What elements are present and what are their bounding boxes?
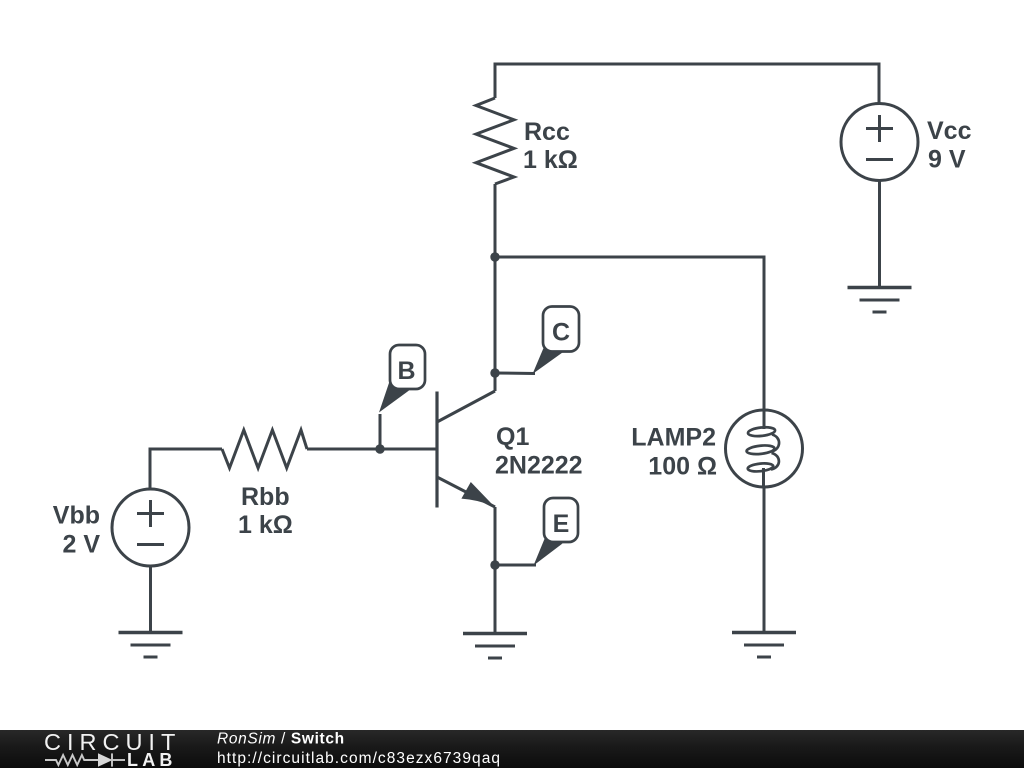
ground (Vcc): [848, 288, 912, 313]
CircuitLab logo wordmark: [44, 729, 181, 768]
wire Vcc to ground: [878, 181, 881, 288]
letter C: [552, 319, 570, 347]
label flag C: [533, 307, 580, 375]
voltage source Vbb: [112, 489, 189, 566]
letter B: [397, 357, 415, 385]
wire base lead to transistor: [307, 448, 437, 451]
svg-text:http://circuitlab.com/c83ezx67: http://circuitlab.com/c83ezx6739qaq: [217, 750, 501, 767]
wire node to lamp top: [495, 257, 764, 411]
letter E: [553, 510, 570, 538]
lamp LAMP2: [726, 410, 803, 487]
wire base net from Vbb to resistor: [150, 449, 222, 488]
voltage source Vcc: [841, 104, 918, 181]
label Vbb value: [53, 502, 101, 559]
transistor Q1 emitter arrow: [461, 482, 494, 506]
wire Vbb to ground: [149, 566, 152, 632]
node junction at Rcc bottom: [490, 252, 499, 261]
resistor Rbb: [222, 430, 307, 468]
wire collector vertical: [494, 257, 497, 391]
svg-text:LAB: LAB: [127, 750, 177, 768]
label Vcc value: [927, 117, 972, 174]
label LAMP2 value: [631, 424, 717, 481]
CircuitLab logo symbol (resistor + diode): [45, 753, 125, 767]
wire B label lead: [379, 414, 382, 449]
ground (lamp): [732, 633, 796, 658]
node junction at collector: [490, 368, 499, 377]
label flag E: [534, 498, 579, 566]
footer bar: [0, 730, 1024, 768]
wire C label lead: [495, 372, 535, 376]
wire lamp to ground: [763, 487, 766, 632]
label Rbb value: [238, 483, 293, 539]
label Rcc value: [523, 118, 578, 174]
resistor Rcc: [476, 98, 514, 184]
ground (Vbb): [119, 633, 183, 658]
ground (emitter): [463, 634, 527, 659]
wire emitter vertical to ground: [494, 507, 497, 633]
wire Rcc bottom lead to node: [494, 184, 497, 257]
transistor Q1 body: [437, 391, 495, 508]
label flag B: [379, 345, 425, 413]
wire E label lead: [495, 564, 536, 567]
svg-text:RonSim / Switch: RonSim / Switch: [217, 731, 345, 748]
wire top net from Rcc to Vcc: [495, 64, 879, 103]
footer title RonSim / Switch: [217, 731, 501, 768]
node junction at emitter: [490, 560, 499, 569]
label Q1 value: [495, 423, 583, 480]
node junction at base: [375, 444, 384, 453]
